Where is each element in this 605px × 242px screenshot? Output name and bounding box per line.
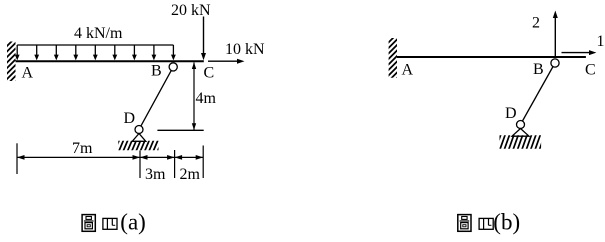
svg-text:B: B: [533, 61, 544, 78]
beam A-C (fig b): [397, 56, 586, 58]
pin circle at B (fig b): [551, 59, 559, 67]
caption glyph 四 (b): [479, 218, 493, 229]
svg-text:3m: 3m: [145, 166, 166, 183]
reference line at D level (fig a): [157, 129, 203, 131]
svg-text:D: D: [505, 105, 517, 122]
caption glyph 圖 (b): [458, 215, 471, 232]
dimension 4m (fig a): [192, 62, 217, 130]
fixed wall support at A (fig b): [384, 30, 401, 91]
caption glyph 四 (a): [103, 218, 117, 229]
svg-text:A: A: [22, 65, 34, 82]
svg-text:(a): (a): [120, 210, 146, 235]
pin support triangle at D (fig b): [512, 129, 529, 137]
horizontal load 10 kN (fig a): [208, 41, 265, 64]
member B-D (fig b): [521, 63, 556, 125]
ground hatching at D (fig b): [495, 134, 545, 152]
distributed load 4 kN/m (fig a): [15, 45, 176, 60]
pin circle at B (fig a): [169, 63, 177, 71]
pin circle at D (fig a): [135, 126, 143, 134]
svg-text:2: 2: [532, 14, 540, 31]
dimension chain 7m / 3m / 2m (fig a): [17, 143, 203, 178]
svg-text:7m: 7m: [72, 140, 93, 157]
reaction arrow 2 (fig b): [532, 11, 558, 57]
reaction arrow 1 (fig b): [562, 33, 605, 55]
point load 20 kN (fig a): [171, 2, 211, 60]
svg-text:D: D: [124, 110, 136, 127]
svg-text:4m: 4m: [196, 90, 217, 107]
svg-text:C: C: [585, 62, 596, 79]
pin circle at D (fig b): [517, 121, 525, 129]
svg-text:B: B: [151, 62, 162, 79]
fixed wall support at A (fig a): [3, 33, 20, 94]
svg-text:1: 1: [597, 33, 605, 50]
svg-text:A: A: [402, 61, 414, 78]
caption glyph 圖 (a): [82, 215, 95, 232]
ground hatching at D (fig a): [114, 139, 163, 153]
svg-text:10 kN: 10 kN: [225, 41, 265, 58]
beam A-C (fig a): [16, 60, 204, 62]
svg-text:4 kN/m: 4 kN/m: [74, 25, 123, 42]
svg-text:(b): (b): [493, 210, 520, 235]
svg-text:20 kN: 20 kN: [171, 2, 211, 19]
member B-D (fig a): [139, 67, 173, 130]
svg-text:C: C: [204, 65, 215, 82]
pin support triangle at D (fig a): [132, 134, 146, 142]
svg-text:2m: 2m: [180, 166, 201, 183]
